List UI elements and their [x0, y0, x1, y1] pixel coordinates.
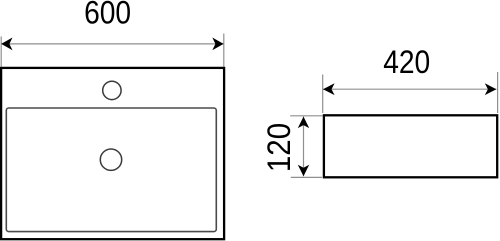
extension line right of 420 dimension — [497, 72, 499, 113]
arrowhead left of 600 dimension — [1, 38, 12, 51]
drain hole circle — [100, 149, 121, 170]
svg-text:600: 600 — [84, 0, 131, 31]
arrowhead bottom of 120 dimension — [298, 165, 309, 177]
extension line left of 600 dimension — [0, 37, 2, 67]
extension line bottom of 120 dimension — [291, 176, 322, 178]
extension line top of 120 dimension — [290, 115, 322, 117]
svg-text:420: 420 — [383, 45, 430, 80]
basin inner bowl outline (front view) — [6, 108, 216, 232]
dimension line 420 — [323, 88, 496, 90]
basin outer outline (front view) — [1, 68, 224, 239]
arrowhead top of 120 dimension — [298, 117, 309, 129]
extension line right of 600 dimension — [223, 34, 225, 67]
extension line left of 420 dimension — [322, 75, 324, 114]
arrowhead right of 420 dimension — [485, 83, 497, 95]
arrowhead right of 600 dimension — [212, 38, 223, 51]
side view slab outline — [324, 115, 497, 177]
arrowhead left of 420 dimension — [323, 83, 335, 95]
dimension line 120 — [303, 117, 305, 177]
svg-text:120: 120 — [261, 123, 298, 172]
faucet hole circle — [103, 81, 121, 99]
dimension line 600 — [1, 43, 223, 45]
